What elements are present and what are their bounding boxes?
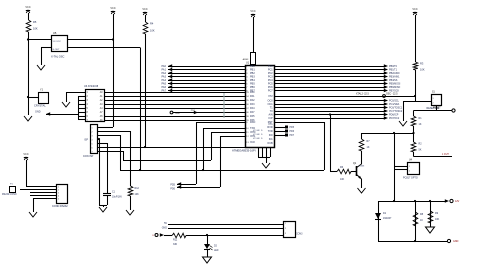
svg-text:R4: R4 bbox=[150, 22, 154, 26]
svg-text:PD5: PD5 bbox=[290, 127, 295, 129]
svg-text:PA7: PA7 bbox=[161, 90, 166, 93]
wire port C bus with net arrows bbox=[274, 99, 403, 120]
power VCC symbol VCC3 bbox=[142, 8, 147, 15]
wire bbox=[415, 15, 417, 62]
node junction bbox=[206, 234, 208, 236]
connector J2 ISP bbox=[83, 125, 98, 159]
resistor R1 1K bbox=[411, 116, 422, 126]
ground bbox=[203, 257, 212, 263]
resistor R12 10K bbox=[128, 186, 139, 196]
wire to transistor base bbox=[330, 115, 332, 172]
svg-text:5: 5 bbox=[58, 198, 59, 200]
connector J4 bbox=[284, 222, 304, 238]
net flag stubs bbox=[274, 126, 295, 138]
svg-text:10K: 10K bbox=[135, 193, 140, 196]
oscillator module U5 bbox=[51, 31, 68, 59]
wire bbox=[97, 139, 100, 205]
wire bbox=[97, 131, 131, 186]
svg-text:4: 4 bbox=[58, 195, 59, 197]
ground bbox=[62, 102, 70, 107]
wire PD0 route bbox=[196, 122, 245, 184]
svg-text:CRYSTAL: CRYSTAL bbox=[34, 104, 46, 108]
wire bus U3 to U1 bbox=[104, 93, 245, 121]
wire bbox=[361, 133, 363, 139]
svg-text:VC GN: VC GN bbox=[253, 134, 260, 136]
svg-text:GND: GND bbox=[453, 240, 459, 243]
wire bbox=[164, 235, 172, 237]
svg-text:VCC: VCC bbox=[25, 6, 30, 9]
wire long net L2 bbox=[120, 170, 324, 172]
connector J1 RS232 bbox=[52, 185, 68, 209]
wire bbox=[413, 111, 415, 117]
svg-text:3: 3 bbox=[285, 233, 286, 235]
wire bbox=[20, 189, 56, 191]
wire bbox=[168, 228, 283, 230]
svg-text:PA2: PA2 bbox=[250, 99, 255, 102]
node junction bbox=[393, 132, 395, 134]
svg-text:1 F VCC: 1 F VCC bbox=[53, 41, 62, 43]
net arrow PD6 bbox=[170, 185, 220, 190]
svg-text:GND: GND bbox=[162, 227, 168, 230]
wire bbox=[330, 171, 337, 173]
wire PD3 route bbox=[220, 136, 245, 187]
wire bbox=[207, 250, 209, 258]
svg-text:1: 1 bbox=[409, 166, 410, 168]
wire bbox=[414, 152, 453, 157]
svg-text:3: 3 bbox=[92, 136, 93, 138]
svg-text:1: 1 bbox=[285, 223, 286, 225]
svg-text:PA5: PA5 bbox=[250, 115, 255, 118]
svg-text:VCC: VCC bbox=[142, 8, 147, 11]
wire XTAL2 net bbox=[274, 93, 415, 98]
svg-text:ICP: ICP bbox=[269, 117, 274, 120]
ground bbox=[99, 207, 107, 212]
internal labels U1 bottom bbox=[253, 130, 263, 140]
svg-text:3: 3 bbox=[58, 192, 59, 194]
svg-text:4: 4 bbox=[92, 140, 93, 142]
pin name labels U1 left bbox=[246, 65, 256, 144]
ground bbox=[262, 163, 270, 168]
svg-text:TXD: TXD bbox=[268, 130, 273, 133]
ground bbox=[37, 65, 45, 70]
wire bbox=[413, 126, 415, 142]
svg-text:OCB: OCB bbox=[267, 142, 273, 145]
svg-text:1: 1 bbox=[92, 128, 93, 130]
wire bbox=[28, 39, 51, 41]
opto coupler U4 bbox=[403, 160, 420, 180]
ground bbox=[399, 121, 407, 126]
svg-text:10K: 10K bbox=[33, 27, 38, 31]
svg-text:VCC: VCC bbox=[110, 7, 115, 10]
node junction bbox=[27, 96, 29, 98]
svg-text:XTAL2 -22.5: XTAL2 -22.5 bbox=[356, 93, 369, 96]
svg-text:2: 2 bbox=[409, 171, 410, 173]
svg-text:10K: 10K bbox=[150, 29, 155, 33]
resistor R5 10K bbox=[26, 20, 38, 32]
ground bbox=[24, 116, 32, 121]
svg-text:R12: R12 bbox=[135, 187, 140, 190]
pin labels U3 bbox=[87, 91, 104, 122]
net line PD0 with terminal and arrow bbox=[170, 110, 245, 115]
terminal GND bbox=[447, 239, 458, 243]
wire long net L1 bbox=[123, 160, 211, 162]
svg-text:RESET: RESET bbox=[433, 108, 441, 110]
wire bbox=[28, 32, 30, 115]
svg-text:R11: R11 bbox=[173, 239, 178, 242]
eeprom U3 AT24C08 bbox=[84, 85, 105, 122]
wire bbox=[28, 97, 38, 99]
wire bbox=[186, 235, 283, 237]
wire long net to U1 bbox=[97, 147, 245, 149]
svg-text:RXD: RXD bbox=[250, 121, 255, 124]
net port P1 bbox=[10, 184, 16, 193]
wire bbox=[415, 201, 417, 241]
ground bbox=[426, 227, 435, 233]
net arrow PD5 bbox=[170, 182, 196, 186]
svg-text:PC7: PC7 bbox=[268, 90, 273, 93]
wire pins to gnd rail bbox=[78, 96, 85, 120]
node junction bbox=[412, 132, 414, 134]
wire PD2 route bbox=[211, 132, 245, 160]
resistor R4 10K bbox=[143, 22, 155, 35]
svg-text:IN1: IN1 bbox=[269, 138, 274, 141]
svg-text:PD7: PD7 bbox=[290, 135, 295, 137]
svg-text:PD5: PD5 bbox=[170, 184, 175, 187]
svg-text:2: 2 bbox=[92, 132, 93, 134]
node junction bbox=[414, 200, 416, 202]
svg-text:VC GN: VC GN bbox=[253, 138, 260, 140]
node junction bbox=[98, 138, 100, 140]
node junction bbox=[414, 240, 416, 242]
svg-text:U5: U5 bbox=[53, 31, 57, 35]
svg-text:VCC: VCC bbox=[250, 10, 255, 13]
svg-text:AREF: AREF bbox=[243, 58, 249, 61]
wire bbox=[362, 133, 414, 201]
svg-text:RXD: RXD bbox=[267, 126, 272, 129]
ground bbox=[126, 210, 134, 215]
svg-text:5: 5 bbox=[92, 144, 93, 146]
wire port A bus with net arrows bbox=[161, 64, 245, 92]
svg-text:XCK: XCK bbox=[250, 141, 255, 144]
svg-text:330: 330 bbox=[173, 243, 178, 246]
svg-text:X-TAL OSC: X-TAL OSC bbox=[51, 55, 65, 59]
node junction bbox=[139, 169, 141, 171]
svg-text:CONN RS232: CONN RS232 bbox=[52, 205, 68, 208]
ground bbox=[29, 212, 37, 217]
wire bbox=[30, 195, 56, 197]
svg-text:5V: 5V bbox=[164, 222, 167, 225]
wire bbox=[378, 201, 380, 241]
wire bbox=[97, 151, 124, 160]
resistor R2 5K bbox=[411, 142, 422, 152]
svg-text:CON ISP: CON ISP bbox=[83, 155, 94, 158]
svg-text:1K: 1K bbox=[420, 219, 423, 222]
capacitor C1 10uF bbox=[103, 192, 122, 199]
svg-text:1K: 1K bbox=[419, 123, 422, 126]
svg-text:2: 2 bbox=[285, 228, 286, 230]
wire loop to LCD rail bbox=[274, 122, 325, 170]
wire bbox=[253, 17, 255, 52]
wire bbox=[253, 64, 255, 65]
svg-text:ISP: ISP bbox=[84, 140, 88, 142]
svg-text:R3: R3 bbox=[420, 62, 424, 66]
svg-text:7: 7 bbox=[92, 152, 93, 154]
node junction bbox=[393, 200, 395, 202]
wire bbox=[97, 143, 108, 193]
wire bbox=[113, 14, 115, 127]
wire bbox=[97, 135, 121, 170]
svg-text:CON3: CON3 bbox=[296, 234, 303, 236]
svg-text:ATMEGA8535-16PI: ATMEGA8535-16PI bbox=[232, 149, 256, 153]
svg-text:VC GN: VC GN bbox=[253, 130, 260, 132]
power VCC symbol VCC4 bbox=[250, 10, 255, 17]
led D2 bbox=[204, 244, 219, 252]
svg-text:U3 AT24C08: U3 AT24C08 bbox=[84, 85, 99, 88]
wire port B bus with net arrows bbox=[274, 64, 401, 92]
svg-text:2: 2 bbox=[58, 189, 59, 191]
resistor R3 10K bbox=[413, 62, 425, 72]
svg-text:OSC - 22.5: OSC - 22.5 bbox=[386, 94, 398, 96]
node junction bbox=[112, 38, 114, 40]
wire bbox=[67, 39, 113, 41]
svg-text:C945: C945 bbox=[359, 166, 365, 168]
net label GND bbox=[35, 111, 78, 116]
wire bbox=[145, 15, 147, 22]
node junction bbox=[429, 200, 431, 202]
svg-text:10uF/16V: 10uF/16V bbox=[112, 197, 122, 199]
wire bbox=[361, 151, 363, 164]
wire bbox=[430, 201, 432, 227]
svg-text:PB7/SCK: PB7/SCK bbox=[389, 90, 400, 93]
power VCC symbol VCC5 bbox=[23, 153, 28, 160]
svg-text:1: 1 bbox=[58, 186, 59, 188]
resistor R8 1K bbox=[413, 212, 424, 226]
svg-text:1K: 1K bbox=[367, 146, 370, 149]
svg-text:GND: GND bbox=[35, 111, 41, 114]
transistor Q1 bbox=[351, 162, 365, 179]
wire bbox=[28, 13, 30, 20]
wire PD1 route bbox=[203, 128, 245, 170]
svg-text:10K: 10K bbox=[435, 218, 440, 221]
pin name labels U1 right bbox=[267, 65, 273, 145]
svg-text:PD6: PD6 bbox=[170, 188, 175, 191]
scan artifact vertical bbox=[223, 93, 225, 118]
node junction bbox=[27, 38, 29, 40]
svg-text:PA4: PA4 bbox=[250, 107, 255, 110]
wire bbox=[415, 70, 417, 101]
svg-text:PA1: PA1 bbox=[250, 95, 255, 98]
terminal bbox=[452, 109, 455, 112]
svg-text:VCC: VCC bbox=[412, 8, 417, 11]
net input arrow bbox=[152, 233, 164, 237]
svg-text:1 OUT: 1 OUT bbox=[442, 154, 449, 156]
wire bbox=[403, 101, 431, 121]
svg-text:PA3: PA3 bbox=[250, 103, 255, 106]
svg-text:VCC: VCC bbox=[23, 153, 28, 156]
wire bbox=[26, 160, 28, 186]
svg-text:PD6: PD6 bbox=[290, 131, 295, 133]
wire ground stubs bbox=[258, 147, 271, 163]
wire bbox=[66, 92, 85, 102]
svg-text:1: 1 bbox=[433, 98, 434, 100]
crystal Y1 bbox=[34, 89, 49, 108]
power VCC symbol VCC6 bbox=[412, 8, 417, 15]
net labels bbox=[162, 222, 168, 230]
svg-text:RS232 CONN: RS232 CONN bbox=[2, 194, 17, 196]
node junction bbox=[202, 169, 204, 171]
svg-text:5K: 5K bbox=[419, 149, 422, 152]
wire bbox=[378, 201, 445, 203]
resistor R6 10K bbox=[337, 166, 351, 181]
wire bbox=[30, 192, 56, 194]
svg-text:PD7/OC2: PD7/OC2 bbox=[389, 117, 400, 120]
ground bbox=[358, 188, 366, 193]
switch S1 reset bbox=[427, 92, 442, 111]
svg-text:10K: 10K bbox=[420, 68, 425, 72]
power VCC symbol VCC1 bbox=[25, 6, 30, 13]
svg-text:GND: GND bbox=[175, 113, 180, 115]
terminal 12V bbox=[445, 199, 460, 203]
svg-text:PA0: PA0 bbox=[250, 91, 255, 94]
power VCC symbol VCC2 bbox=[110, 7, 115, 14]
wire bbox=[378, 241, 447, 243]
svg-text:2: 2 bbox=[433, 103, 434, 105]
node junction bbox=[329, 113, 331, 115]
microcontroller U1 ATMEGA8535 bbox=[232, 62, 275, 153]
svg-text:PA7: PA7 bbox=[250, 111, 255, 114]
wire bbox=[145, 34, 147, 147]
svg-text:10K: 10K bbox=[340, 178, 345, 181]
wire bbox=[97, 127, 113, 129]
wire bbox=[26, 186, 56, 188]
wire bbox=[67, 48, 141, 171]
wire bbox=[130, 196, 132, 210]
inductor L1 AREF filter bbox=[243, 53, 256, 65]
wire bbox=[33, 198, 56, 212]
node junction bbox=[144, 146, 146, 148]
svg-text:LED: LED bbox=[214, 250, 219, 252]
node junction bbox=[414, 95, 416, 97]
svg-text:1N4007: 1N4007 bbox=[383, 217, 392, 220]
wire bbox=[99, 196, 108, 208]
diode D1 1N4007 bbox=[375, 212, 392, 220]
wire bbox=[361, 179, 363, 188]
svg-text:6: 6 bbox=[92, 148, 93, 150]
svg-text:IN0: IN0 bbox=[269, 134, 274, 137]
svg-text:12V: 12V bbox=[455, 200, 460, 203]
wire bbox=[41, 48, 51, 66]
wire bbox=[207, 235, 209, 244]
resistor R11 330 bbox=[172, 233, 186, 246]
wire bbox=[414, 105, 453, 111]
svg-text:G OUT: G OUT bbox=[53, 49, 61, 51]
resistor R9 10K bbox=[428, 211, 439, 223]
resistor R7 1K bbox=[359, 139, 370, 151]
svg-text:R5: R5 bbox=[33, 20, 37, 24]
wire bbox=[168, 224, 283, 226]
svg-text:XT2: XT2 bbox=[268, 95, 273, 98]
svg-text:PC817 OPTO: PC817 OPTO bbox=[403, 177, 418, 180]
